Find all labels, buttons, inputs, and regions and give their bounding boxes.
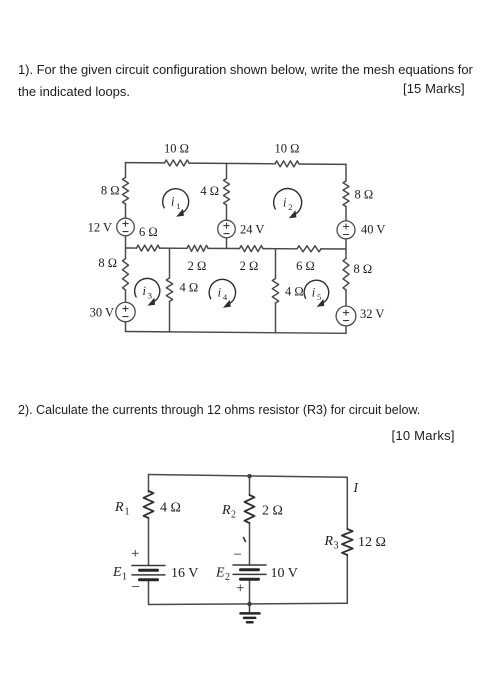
svg-text:2: 2 xyxy=(225,572,230,583)
svg-text:12 Ω: 12 Ω xyxy=(358,535,386,550)
wire: bottom rail of circuit 2 xyxy=(149,603,348,604)
label - (E1 bottom) xyxy=(132,580,140,596)
resistor 2 ohm (bus, first) xyxy=(187,245,208,251)
svg-text:i: i xyxy=(171,195,175,209)
label 8 ohm (upper-right) xyxy=(355,188,374,202)
svg-text:E: E xyxy=(112,565,122,580)
problem 1 statement line 1 xyxy=(18,62,473,77)
svg-text:40 V: 40 V xyxy=(361,223,385,237)
label 12 ohm (R3 value) xyxy=(358,535,386,550)
resistor R2 xyxy=(245,495,255,523)
label + (E2 bottom) xyxy=(236,581,244,597)
label R1 xyxy=(114,500,130,518)
svg-text:8 Ω: 8 Ω xyxy=(354,262,373,276)
label 8 ohm (lower-left) xyxy=(98,256,117,270)
svg-text:E: E xyxy=(215,566,225,581)
svg-text:8 Ω: 8 Ω xyxy=(101,184,120,198)
svg-text:10 Ω: 10 Ω xyxy=(164,142,189,156)
wire: top rail of circuit 2 xyxy=(149,475,348,478)
svg-text:8 Ω: 8 Ω xyxy=(355,188,374,202)
svg-text:R: R xyxy=(114,500,124,515)
source 30 V xyxy=(116,302,135,321)
battery E2 plates xyxy=(233,565,266,579)
svg-text:12 V: 12 V xyxy=(88,221,112,235)
svg-text:i: i xyxy=(218,286,222,300)
label E2 xyxy=(215,566,230,584)
svg-text:6 Ω: 6 Ω xyxy=(296,259,315,273)
label + (E1 top) xyxy=(131,546,139,562)
svg-text:1: 1 xyxy=(176,201,180,211)
label 2 ohm (R2 value) xyxy=(262,504,283,519)
wire: right rail xyxy=(345,164,347,333)
label 2 ohm (first) xyxy=(188,259,207,273)
source 24 V xyxy=(218,220,236,238)
resistor 4 ohm (rail2) xyxy=(166,278,172,302)
label 4 ohm (middle top) xyxy=(200,184,219,198)
node: junction dot bottom of middle branch xyxy=(247,602,251,606)
svg-text:i: i xyxy=(312,286,316,300)
label 12 V xyxy=(88,221,112,235)
wire: third rail (below bus) xyxy=(275,249,277,333)
label R3 xyxy=(324,534,339,552)
label 4 ohm (rail3) xyxy=(285,285,304,299)
svg-text:I: I xyxy=(353,480,360,495)
svg-text:24 V: 24 V xyxy=(240,223,264,237)
source 12 V xyxy=(117,218,135,236)
svg-text:4 Ω: 4 Ω xyxy=(180,281,199,295)
label 8 ohm (lower-right) xyxy=(354,262,373,276)
label 40 V xyxy=(361,223,385,237)
wire: bottom rail of circuit 1 xyxy=(126,332,347,334)
svg-text:i: i xyxy=(142,284,146,298)
node: junction dot top of middle branch xyxy=(247,474,251,478)
wire: middle rail (top to bus) xyxy=(226,164,228,249)
svg-text:2 Ω: 2 Ω xyxy=(262,504,283,519)
svg-text:4: 4 xyxy=(223,292,228,302)
label 4 ohm (R1 value) xyxy=(160,501,181,516)
resistor 8 ohm (upper-right) xyxy=(343,181,349,207)
svg-text:+: + xyxy=(131,546,139,562)
svg-text:2 Ω: 2 Ω xyxy=(240,259,259,273)
svg-text:30 V: 30 V xyxy=(90,306,114,320)
wire: top rail of circuit 1 xyxy=(126,163,347,165)
svg-text:2: 2 xyxy=(288,202,292,212)
label 30 V xyxy=(90,306,114,320)
resistor R1 xyxy=(144,491,154,518)
problem 1 marks label xyxy=(403,81,465,96)
resistor 10 ohm (top-right) xyxy=(275,161,299,167)
ground symbol xyxy=(241,604,260,622)
resistor 8 ohm (lower-left) xyxy=(123,259,129,291)
svg-text:6 Ω: 6 Ω xyxy=(139,225,158,239)
mesh current loop i5 xyxy=(304,280,329,307)
svg-text:4 Ω: 4 Ω xyxy=(160,501,181,516)
wire: left branch of circuit 2 xyxy=(148,475,150,605)
resistor 4 ohm (middle top) xyxy=(224,179,230,206)
svg-text:R: R xyxy=(324,534,334,549)
label - (E2 top) xyxy=(234,547,242,563)
resistor 6 ohm (bus right) xyxy=(297,246,321,252)
label 6 ohm (bus left) xyxy=(139,225,158,239)
resistor 8 ohm (upper-left) xyxy=(123,178,129,205)
mesh current loop i2 xyxy=(274,189,302,219)
label I (branch current) xyxy=(353,480,360,495)
svg-text:R: R xyxy=(221,503,231,518)
svg-text:4 Ω: 4 Ω xyxy=(285,285,304,299)
problem 1 statement line 2 xyxy=(18,84,130,99)
svg-text:32 V: 32 V xyxy=(360,307,384,321)
resistor 2 ohm (bus, second) xyxy=(240,246,264,252)
label 4 ohm (rail2) xyxy=(180,281,199,295)
wire: second rail (below bus) xyxy=(169,248,171,332)
svg-text:10 V: 10 V xyxy=(271,566,298,581)
svg-text:+: + xyxy=(236,581,244,597)
svg-text:−: − xyxy=(132,580,140,596)
resistor 10 ohm (top-left) xyxy=(165,160,190,166)
svg-text:i: i xyxy=(283,196,287,210)
resistor 6 ohm (bus left) xyxy=(137,245,160,251)
label R2 xyxy=(221,503,236,521)
mesh current loop i4 xyxy=(209,279,235,307)
source 32 V xyxy=(336,306,356,326)
svg-text:4 Ω: 4 Ω xyxy=(200,184,219,198)
resistor R3 xyxy=(342,529,353,555)
resistor 8 ohm (lower-right) xyxy=(343,259,349,291)
label 2 ohm (second) xyxy=(240,259,259,273)
problem 2 marks label xyxy=(392,428,455,443)
wire: middle bus of circuit 1 xyxy=(126,248,347,249)
svg-text:1: 1 xyxy=(125,507,130,518)
label 32 V xyxy=(360,307,384,321)
label 16 V xyxy=(171,566,198,581)
resistor 4 ohm (rail3) xyxy=(272,279,278,304)
svg-text:2 Ω: 2 Ω xyxy=(188,259,207,273)
wire: right branch of circuit 2 xyxy=(346,477,348,603)
label 10 V xyxy=(271,566,298,581)
svg-text:1: 1 xyxy=(122,572,127,583)
mesh current loop i1 xyxy=(163,189,189,217)
label 8 ohm (upper-left) xyxy=(101,184,120,198)
svg-text:3: 3 xyxy=(148,291,152,301)
svg-text:8 Ω: 8 Ω xyxy=(98,256,117,270)
svg-text:−: − xyxy=(234,547,242,563)
source 40 V xyxy=(337,221,355,239)
wire: middle branch of circuit 2 xyxy=(249,476,251,604)
label 6 ohm (bus right) xyxy=(296,259,315,273)
stray ink mark below R2 xyxy=(244,538,246,542)
svg-text:10 Ω: 10 Ω xyxy=(275,142,300,156)
problem 2 statement xyxy=(18,403,420,417)
label E1 xyxy=(112,565,127,583)
svg-text:5: 5 xyxy=(317,292,321,302)
label 24 V xyxy=(240,223,264,237)
label 10 ohm (top-left) xyxy=(164,142,189,156)
mesh current loop i3 xyxy=(135,278,160,305)
svg-text:16 V: 16 V xyxy=(171,566,198,581)
battery E1 plates xyxy=(132,566,165,580)
svg-text:3: 3 xyxy=(334,541,339,552)
svg-text:2: 2 xyxy=(231,510,236,521)
label 10 ohm (top-right) xyxy=(275,142,300,156)
wire: left rail top segment xyxy=(125,163,127,332)
